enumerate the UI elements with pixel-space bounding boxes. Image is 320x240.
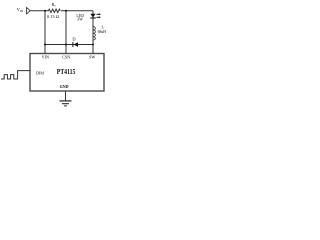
svg-text:VIN: VIN (42, 54, 49, 59)
svg-text:DIM: DIM (36, 70, 44, 75)
svg-text:PT4115: PT4115 (57, 69, 76, 76)
svg-text:3W: 3W (77, 16, 83, 21)
svg-text:GND: GND (60, 84, 69, 89)
svg-text:SW: SW (89, 54, 95, 59)
svg-text:68uH: 68uH (98, 30, 107, 34)
svg-text:0.13 Ω: 0.13 Ω (47, 14, 59, 19)
svg-text:CSN: CSN (62, 54, 70, 59)
svg-text:D: D (72, 36, 75, 41)
